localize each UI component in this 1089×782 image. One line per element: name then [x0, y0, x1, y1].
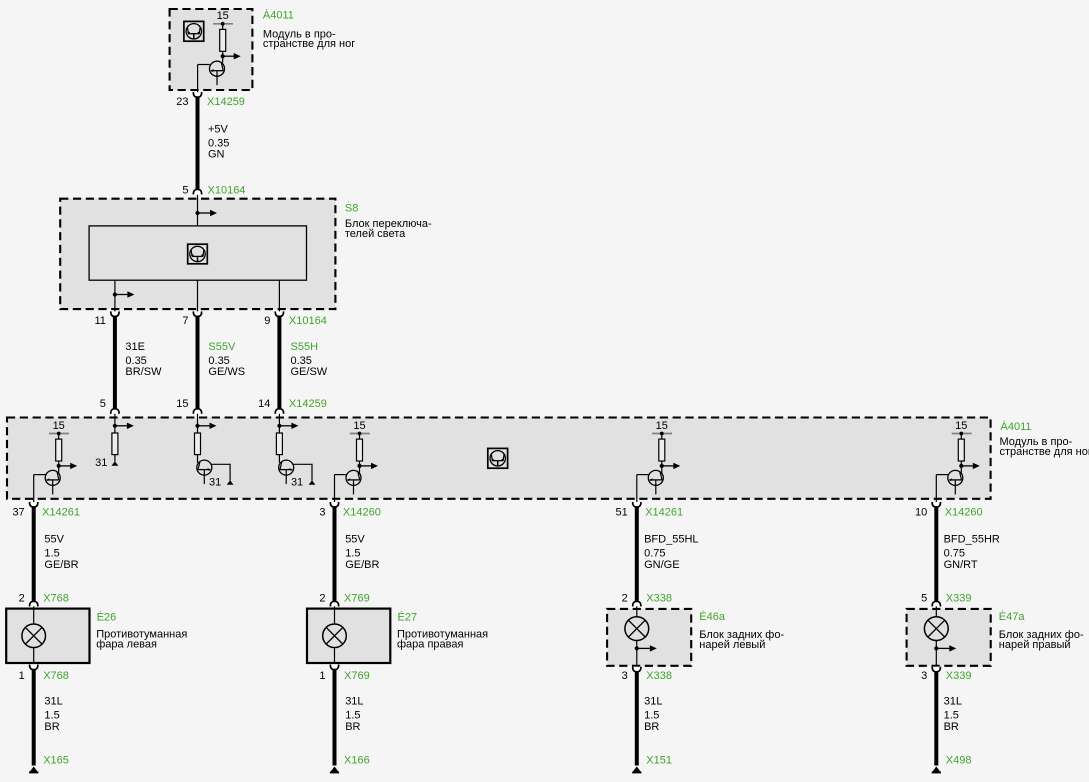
svg-text:2: 2 — [622, 592, 628, 604]
svg-text:9: 9 — [264, 315, 270, 327]
svg-text:Ṡ8: Ṡ8 — [345, 202, 358, 215]
svg-text:S55V: S55V — [208, 341, 236, 353]
svg-text:BR: BR — [644, 721, 659, 733]
svg-text:15: 15 — [53, 420, 65, 432]
svg-text:телей света: телей света — [345, 228, 406, 240]
svg-text:15: 15 — [656, 420, 668, 432]
svg-text:X165: X165 — [43, 754, 69, 766]
svg-text:2: 2 — [19, 592, 25, 604]
svg-text:2: 2 — [319, 592, 325, 604]
svg-text:31L: 31L — [44, 696, 62, 708]
svg-text:GE/SW: GE/SW — [291, 366, 328, 378]
svg-text:X338: X338 — [646, 670, 672, 682]
svg-text:BFD_55HR: BFD_55HR — [944, 534, 1000, 546]
svg-text:1.5: 1.5 — [345, 548, 360, 560]
svg-text:1: 1 — [19, 670, 25, 682]
svg-text:55V: 55V — [44, 534, 64, 546]
svg-text:X768: X768 — [43, 670, 69, 682]
svg-text:31L: 31L — [944, 696, 962, 708]
svg-text:Ė26: Ė26 — [97, 610, 117, 623]
svg-text:нарей левый: нарей левый — [699, 639, 765, 651]
svg-text:X14261: X14261 — [645, 507, 683, 519]
svg-text:15: 15 — [217, 10, 229, 22]
svg-text:1: 1 — [319, 670, 325, 682]
svg-text:0.35: 0.35 — [208, 355, 229, 367]
svg-text:1.5: 1.5 — [44, 548, 59, 560]
svg-text:X14259: X14259 — [289, 398, 327, 410]
svg-text:7: 7 — [182, 315, 188, 327]
svg-text:X14261: X14261 — [42, 507, 80, 519]
svg-text:Ė27: Ė27 — [398, 610, 418, 623]
svg-text:X14260: X14260 — [343, 507, 381, 519]
svg-text:BR: BR — [44, 721, 59, 733]
svg-text:X338: X338 — [646, 592, 672, 604]
svg-text:Ȧ4011: Ȧ4011 — [263, 9, 294, 22]
svg-text:фара правая: фара правая — [397, 639, 463, 651]
svg-text:X769: X769 — [344, 592, 370, 604]
svg-text:23: 23 — [176, 96, 188, 108]
svg-text:X151: X151 — [646, 754, 672, 766]
svg-text:Ė46a: Ė46a — [699, 610, 726, 623]
svg-text:странстве для ног: странстве для ног — [1000, 446, 1089, 458]
svg-text:X10164: X10164 — [208, 185, 246, 197]
svg-text:X769: X769 — [344, 670, 370, 682]
svg-text:14: 14 — [258, 398, 270, 410]
svg-text:GN/GE: GN/GE — [644, 559, 679, 571]
svg-text:BFD_55HL: BFD_55HL — [644, 534, 698, 546]
svg-text:нарей правый: нарей правый — [999, 639, 1071, 651]
svg-text:GE/WS: GE/WS — [208, 366, 245, 378]
svg-text:5: 5 — [182, 185, 188, 197]
svg-text:X14260: X14260 — [945, 507, 983, 519]
svg-text:Ȧ4011: Ȧ4011 — [1001, 420, 1032, 433]
svg-text:51: 51 — [616, 507, 628, 519]
svg-text:X14259: X14259 — [207, 96, 245, 108]
svg-text:0.75: 0.75 — [644, 548, 665, 560]
svg-text:3: 3 — [921, 670, 927, 682]
svg-text:GE/BR: GE/BR — [345, 559, 379, 571]
svg-text:37: 37 — [12, 507, 24, 519]
svg-text:11: 11 — [94, 315, 105, 327]
svg-text:5: 5 — [921, 592, 927, 604]
svg-text:X498: X498 — [946, 754, 972, 766]
svg-text:31E: 31E — [125, 341, 145, 353]
svg-text:31L: 31L — [345, 696, 363, 708]
svg-text:1.5: 1.5 — [644, 710, 659, 722]
svg-text:1.5: 1.5 — [345, 710, 360, 722]
svg-text:BR: BR — [345, 721, 360, 733]
svg-text:+5V: +5V — [208, 123, 229, 135]
svg-text:0.75: 0.75 — [944, 548, 965, 560]
svg-text:S55H: S55H — [291, 341, 319, 353]
svg-text:Ė47a: Ė47a — [999, 610, 1026, 623]
svg-text:10: 10 — [915, 507, 927, 519]
svg-text:BR: BR — [944, 721, 959, 733]
svg-text:GE/BR: GE/BR — [44, 559, 78, 571]
svg-text:X339: X339 — [946, 592, 972, 604]
svg-text:0.35: 0.35 — [125, 355, 146, 367]
svg-text:3: 3 — [319, 507, 325, 519]
svg-text:GN: GN — [208, 149, 225, 161]
svg-text:5: 5 — [100, 398, 106, 410]
svg-text:X10164: X10164 — [289, 315, 327, 327]
svg-text:BR/SW: BR/SW — [125, 366, 162, 378]
svg-text:0.35: 0.35 — [291, 355, 312, 367]
svg-text:31: 31 — [209, 477, 221, 489]
svg-text:X166: X166 — [344, 754, 370, 766]
svg-text:15: 15 — [955, 420, 967, 432]
svg-text:31: 31 — [291, 477, 303, 489]
svg-text:31: 31 — [95, 457, 107, 469]
svg-text:15: 15 — [353, 420, 365, 432]
svg-text:0.35: 0.35 — [208, 137, 229, 149]
svg-text:1.5: 1.5 — [944, 710, 959, 722]
svg-text:фара левая: фара левая — [96, 639, 157, 651]
svg-text:15: 15 — [176, 398, 188, 410]
svg-text:GN/RT: GN/RT — [944, 559, 978, 571]
svg-text:X339: X339 — [946, 670, 972, 682]
svg-text:1.5: 1.5 — [44, 710, 59, 722]
svg-text:X768: X768 — [43, 592, 69, 604]
svg-text:31L: 31L — [644, 696, 662, 708]
svg-text:странстве для ног: странстве для ног — [263, 38, 355, 50]
svg-text:3: 3 — [622, 670, 628, 682]
svg-text:55V: 55V — [345, 534, 365, 546]
